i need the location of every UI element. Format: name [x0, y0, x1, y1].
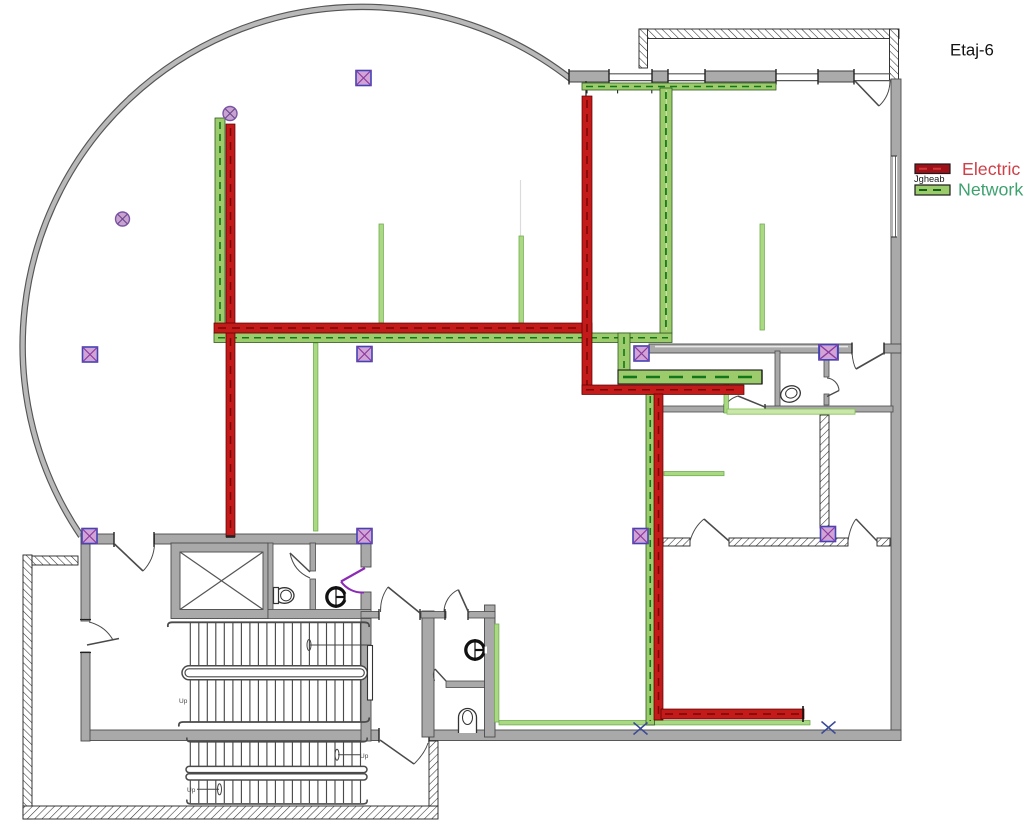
svg-text:Jgheab: Jgheab	[914, 174, 945, 184]
svg-text:Network: Network	[958, 180, 1023, 200]
svg-text:Up: Up	[360, 753, 369, 760]
svg-text:Up: Up	[179, 698, 188, 705]
svg-text:Electric: Electric	[962, 159, 1020, 179]
svg-text:Etaj-6: Etaj-6	[950, 41, 994, 60]
svg-text:Up: Up	[187, 787, 196, 794]
